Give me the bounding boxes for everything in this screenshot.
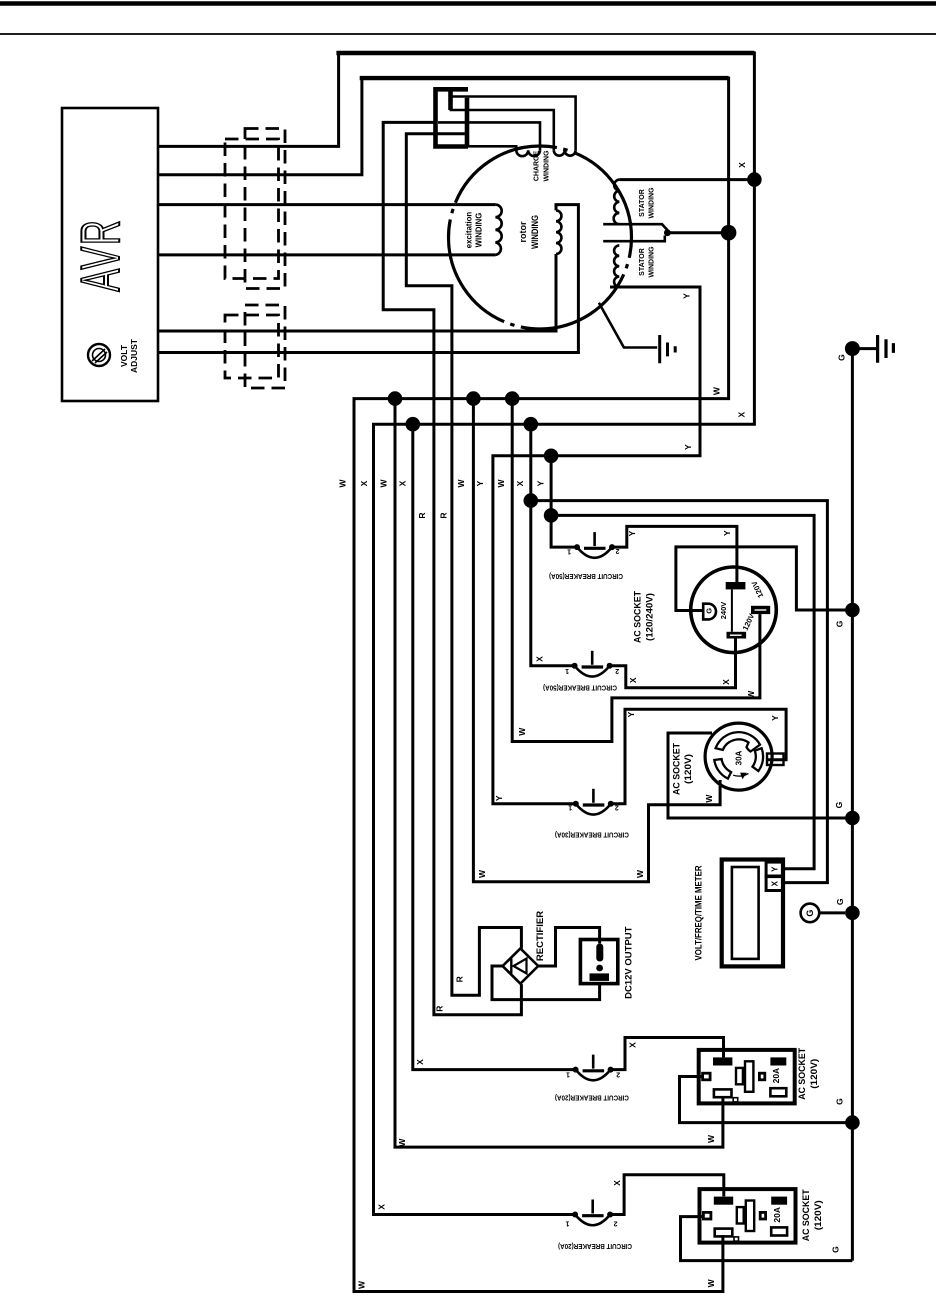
svg-text:G: G (834, 620, 844, 627)
svg-text:W: W (477, 869, 487, 878)
svg-text:G: G (834, 801, 844, 808)
svg-text:X: X (398, 480, 408, 486)
svg-text:CIRCUIT BREAKER(20A): CIRCUIT BREAKER(20A) (558, 1242, 632, 1251)
svg-text:W: W (456, 479, 466, 488)
svg-text:2: 2 (615, 804, 619, 811)
svg-text:Y: Y (722, 530, 732, 536)
svg-text:AC SOCKET: AC SOCKET (633, 591, 644, 643)
svg-text:STATOR: STATOR (639, 189, 646, 217)
svg-text:R: R (439, 513, 449, 519)
svg-text:30A: 30A (735, 750, 744, 765)
svg-text:1: 1 (566, 1071, 570, 1078)
svg-text:W: W (357, 1280, 367, 1289)
svg-text:(120/240V): (120/240V) (645, 593, 656, 641)
svg-text:RECTIFIER: RECTIFIER (535, 911, 546, 961)
svg-text:W: W (706, 1278, 716, 1287)
svg-text:X: X (770, 880, 779, 886)
svg-text:G: G (835, 1098, 845, 1105)
svg-text:G: G (805, 910, 815, 917)
svg-text:(120V): (120V) (683, 754, 694, 784)
svg-text:X: X (721, 679, 731, 685)
svg-text:CHARGE: CHARGE (534, 151, 541, 182)
svg-text:G: G (831, 1246, 841, 1253)
svg-text:Y: Y (627, 530, 637, 536)
svg-text:WINDING: WINDING (649, 187, 656, 219)
svg-text:X: X (737, 162, 747, 168)
svg-text:AC SOCKET: AC SOCKET (801, 1189, 812, 1241)
svg-text:G: G (705, 608, 714, 614)
svg-text:CIRCUIT BREAKER(30A): CIRCUIT BREAKER(30A) (555, 831, 629, 840)
svg-text:X: X (737, 412, 747, 418)
svg-text:G: G (837, 354, 847, 361)
svg-text:Y: Y (626, 711, 636, 717)
svg-text:W: W (746, 690, 756, 699)
svg-text:VOLT: VOLT (119, 344, 129, 367)
svg-text:1: 1 (565, 1220, 569, 1227)
svg-text:Y: Y (681, 293, 691, 299)
svg-text:ADJUST: ADJUST (129, 338, 139, 373)
svg-text:X: X (415, 1059, 425, 1065)
svg-text:Y: Y (683, 444, 693, 450)
svg-text:G: G (835, 898, 845, 905)
svg-text:W: W (635, 869, 645, 878)
svg-text:W: W (397, 1138, 407, 1147)
svg-text:X: X (376, 1204, 386, 1210)
svg-text:(120V): (120V) (809, 1059, 820, 1089)
svg-text:X: X (359, 480, 369, 486)
svg-text:W: W (496, 479, 506, 488)
svg-text:1: 1 (568, 804, 572, 811)
svg-text:excitation: excitation (465, 212, 474, 249)
svg-text:X: X (515, 480, 525, 486)
svg-text:X: X (628, 1042, 638, 1048)
svg-text:W: W (517, 727, 527, 736)
svg-text:W: W (378, 479, 388, 488)
svg-text:W: W (338, 479, 348, 488)
svg-text:2: 2 (616, 1071, 620, 1078)
svg-text:Y: Y (475, 480, 485, 486)
svg-text:rotor: rotor (518, 221, 528, 242)
svg-text:W: W (712, 386, 722, 395)
svg-text:2: 2 (615, 667, 619, 674)
svg-text:R: R (434, 1006, 444, 1012)
svg-text:X: X (534, 656, 544, 662)
svg-text:Y: Y (770, 866, 779, 872)
svg-text:AC SOCKET: AC SOCKET (797, 1048, 808, 1100)
svg-text:W: W (704, 794, 714, 803)
svg-text:X: X (612, 1180, 622, 1186)
svg-text:CIRCUIT BREAKER(20A): CIRCUIT BREAKER(20A) (555, 1094, 629, 1103)
svg-text:1: 1 (565, 667, 569, 674)
svg-text:DC12V OUTPUT: DC12V OUTPUT (624, 926, 635, 999)
svg-text:CIRCUIT BREAKER(50A): CIRCUIT BREAKER(50A) (543, 684, 617, 693)
svg-text:WINDING: WINDING (530, 215, 540, 249)
svg-text:STATOR: STATOR (639, 248, 646, 276)
svg-text:X: X (628, 677, 638, 683)
svg-text:Y: Y (494, 795, 504, 801)
svg-text:(120V): (120V) (813, 1200, 824, 1230)
svg-text:1: 1 (567, 548, 571, 555)
svg-text:2: 2 (615, 547, 619, 554)
svg-text:240V: 240V (719, 602, 728, 620)
svg-text:WINDING: WINDING (475, 213, 484, 248)
svg-text:CIRCUIT BREAKER(50A): CIRCUIT BREAKER(50A) (549, 572, 623, 581)
svg-text:Y: Y (770, 715, 780, 721)
svg-text:VOLT/FREQ/TIME METER: VOLT/FREQ/TIME METER (693, 865, 703, 961)
svg-text:WINDING: WINDING (544, 150, 551, 182)
svg-text:AC SOCKET: AC SOCKET (672, 743, 683, 795)
svg-text:WINDING: WINDING (649, 246, 656, 278)
svg-text:R: R (417, 513, 427, 519)
svg-text:AVR: AVR (70, 218, 131, 291)
svg-text:W: W (706, 1134, 716, 1143)
svg-text:2: 2 (613, 1220, 617, 1227)
svg-text:Y: Y (536, 480, 546, 486)
svg-text:R: R (454, 976, 464, 982)
